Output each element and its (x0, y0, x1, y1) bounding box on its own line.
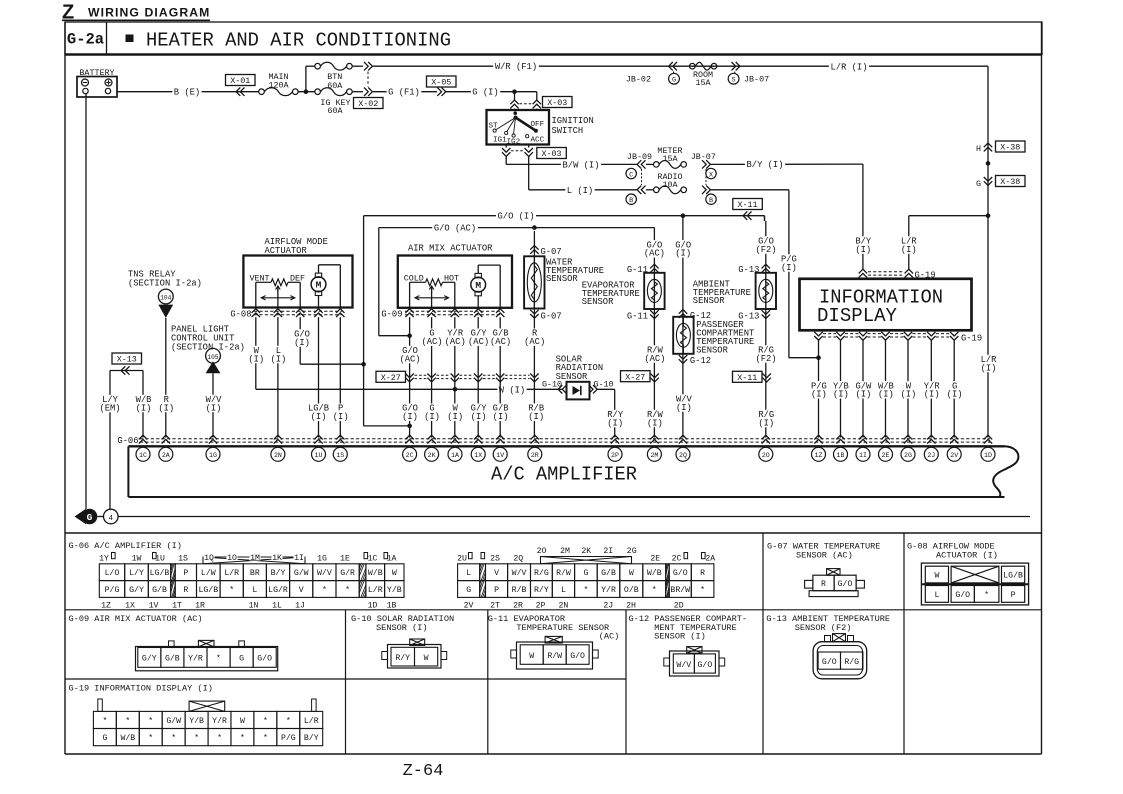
svg-text:(I): (I) (402, 412, 418, 422)
svg-text:1Y: 1Y (99, 554, 109, 563)
svg-text:1E: 1E (340, 554, 350, 563)
connector X-38 H (984, 143, 992, 147)
svg-text:(AC): (AC) (445, 337, 466, 347)
svg-text:B: B (629, 197, 633, 205)
svg-text:ACTUATOR: ACTUATOR (265, 246, 308, 256)
svg-text:IG1: IG1 (493, 137, 507, 145)
fuse ROOM 15A (690, 63, 696, 69)
connector JB-09 (637, 160, 641, 168)
svg-text:AIR MIX ACTUATOR: AIR MIX ACTUATOR (408, 243, 493, 253)
connector X-02 (352, 65, 363, 67)
svg-text:(I): (I) (471, 412, 487, 422)
svg-text:R/G: R/G (534, 568, 549, 578)
svg-text:(I): (I) (447, 412, 463, 422)
svg-text:JB-07: JB-07 (691, 152, 716, 162)
svg-text:2V: 2V (464, 602, 474, 611)
svg-text:(I): (I) (811, 390, 827, 400)
svg-text:2O: 2O (762, 452, 770, 459)
svg-text:G/W: G/W (166, 716, 181, 726)
svg-text:R: R (183, 586, 188, 595)
svg-text:X-11: X-11 (737, 200, 757, 210)
air mix motor M (475, 273, 481, 277)
svg-text:1D: 1D (984, 452, 992, 459)
svg-text:G-11: G-11 (627, 312, 648, 322)
svg-text:2Q: 2Q (679, 452, 687, 459)
svg-text:(I): (I) (833, 390, 849, 400)
wire L(I) from airflow (277, 317, 279, 437)
svg-text:2P: 2P (611, 452, 619, 459)
svg-text:L/R: L/R (224, 568, 239, 578)
node water temp tap (532, 225, 537, 230)
wire G/O to 2C (409, 317, 411, 437)
node G(I) junction (512, 89, 517, 94)
svg-text:*: * (240, 733, 245, 743)
svg-text:TEMPERATURE SENSOR: TEMPERATURE SENSOR (516, 623, 609, 633)
svg-text:SENSOR (F2): SENSOR (F2) (795, 623, 852, 633)
svg-text:B (E): B (E) (174, 88, 200, 98)
svg-text:SENSOR (I): SENSOR (I) (376, 623, 428, 633)
svg-text:1Z: 1Z (815, 452, 823, 459)
svg-text:1D: 1D (368, 602, 378, 611)
svg-text:R: R (700, 569, 705, 578)
svg-text:W/B: W/B (647, 568, 662, 578)
node P/G join (816, 355, 821, 360)
svg-text:(I): (I) (855, 390, 871, 400)
svg-text:(I): (I) (900, 390, 916, 400)
svg-text:B/Y: B/Y (304, 733, 319, 743)
header band (65, 22, 1042, 55)
svg-text:(I): (I) (248, 354, 264, 364)
air mix actuator box (398, 256, 512, 308)
ignition switch U1 (487, 110, 550, 145)
svg-text:G-2a: G-2a (67, 31, 104, 49)
svg-text:G/O: G/O (673, 568, 688, 578)
svg-text:R: R (821, 580, 826, 589)
connector JB-07 radio (702, 186, 706, 194)
svg-text:L: L (561, 586, 566, 595)
wires information display to amplifier (818, 340, 820, 437)
svg-text:SENSOR: SENSOR (582, 297, 614, 307)
svg-text:V: V (299, 586, 304, 595)
svg-text:2K: 2K (428, 452, 436, 459)
svg-text:G: G (87, 512, 93, 523)
svg-text:*: * (263, 733, 268, 743)
svg-text:G-12: G-12 (690, 356, 711, 366)
svg-text:R/Y: R/Y (395, 653, 410, 663)
svg-text:1M: 1M (250, 554, 260, 563)
wire G/O(AC) left drop (378, 228, 380, 336)
svg-text:Y/R: Y/R (212, 716, 227, 726)
svg-text:B/W (I): B/W (I) (563, 160, 600, 170)
svg-text:G/O: G/O (838, 579, 853, 589)
svg-text:2S: 2S (490, 554, 500, 563)
svg-text:120A: 120A (268, 81, 289, 91)
svg-text:X-02: X-02 (358, 99, 378, 109)
ignition switch contacts (513, 111, 517, 115)
ground node 4 (109, 508, 111, 510)
svg-text:G-09: G-09 (381, 309, 402, 319)
svg-text:C: C (629, 171, 633, 179)
node L/R branch (986, 213, 991, 218)
svg-text:(I): (I) (901, 245, 917, 255)
svg-text:W (I): W (I) (499, 385, 525, 395)
connector table frame (65, 532, 1042, 534)
svg-text:*: * (102, 716, 107, 726)
svg-text:R/Y: R/Y (534, 585, 549, 595)
svg-text:SENSOR (I): SENSOR (I) (654, 631, 706, 641)
connector JB-09 radio (637, 186, 641, 194)
connector JB-02 (669, 62, 673, 70)
svg-text:2G: 2G (627, 547, 637, 556)
connector X-11 upper (743, 212, 747, 220)
svg-text:X-03: X-03 (547, 98, 567, 108)
svg-text:*: * (125, 716, 130, 726)
svg-text:*: * (194, 733, 199, 743)
svg-text:G/W: G/W (294, 568, 309, 578)
svg-text:(I): (I) (675, 249, 691, 259)
svg-text:2N: 2N (558, 602, 568, 611)
svg-text:(I): (I) (206, 403, 222, 413)
svg-text:*: * (229, 585, 234, 595)
svg-text:(I): (I) (924, 390, 940, 400)
A/C amplifier box (128, 445, 1004, 447)
svg-text:Y/R: Y/R (601, 585, 616, 595)
svg-text:BR: BR (250, 569, 260, 578)
svg-text:G/Y: G/Y (142, 654, 157, 664)
svg-text:L: L (934, 591, 939, 600)
svg-text:G-10: G-10 (593, 379, 613, 389)
svg-text:X-01: X-01 (230, 76, 250, 86)
wire to P/G (711, 189, 789, 191)
svg-text:2J: 2J (603, 602, 613, 611)
svg-text:W: W (424, 654, 429, 663)
node W join 1A (453, 387, 458, 392)
svg-text:V: V (494, 569, 499, 578)
svg-text:1S: 1S (336, 452, 344, 459)
svg-text:2Q: 2Q (513, 554, 523, 563)
svg-text:SENSOR: SENSOR (546, 274, 578, 284)
svg-text:4: 4 (109, 515, 114, 523)
svg-text:(AC): (AC) (490, 337, 511, 347)
svg-text:W: W (240, 717, 245, 726)
svg-text:(SECTION I-2a): (SECTION I-2a) (128, 279, 202, 289)
svg-text:R/W: R/W (547, 651, 562, 661)
svg-text:(AC): (AC) (399, 354, 420, 364)
svg-text:G-08: G-08 (230, 309, 251, 319)
svg-text:X-11: X-11 (737, 373, 757, 383)
svg-text:DISPLAY: DISPLAY (817, 305, 898, 327)
svg-text:104: 104 (160, 295, 171, 302)
fuse MAIN 120A (267, 72, 290, 89)
svg-text:ACC: ACC (531, 137, 545, 145)
battery (77, 77, 117, 98)
svg-text:W: W (392, 569, 397, 578)
connector X-27 left (376, 371, 406, 382)
svg-text:2A: 2A (705, 554, 715, 563)
svg-text:X-27: X-27 (625, 372, 645, 382)
svg-text:2V: 2V (950, 452, 958, 459)
fuse RADIO 10A (646, 189, 654, 191)
wire G/O(I) bus (364, 215, 765, 217)
wire W/V(I) to 1G (212, 373, 214, 437)
G-06 pin circles (136, 447, 150, 461)
svg-text:G/O: G/O (570, 651, 585, 661)
header bullet (126, 35, 134, 43)
svg-text:2N: 2N (274, 452, 282, 459)
svg-text:P: P (494, 586, 499, 595)
svg-text:(I): (I) (647, 418, 663, 428)
svg-text:*: * (583, 585, 588, 595)
airflow motor M (315, 273, 321, 277)
svg-text:2C: 2C (406, 452, 414, 459)
svg-text:1G: 1G (209, 452, 217, 459)
svg-text:G: G (239, 655, 244, 664)
svg-text:*: * (216, 654, 221, 664)
svg-text:2E: 2E (882, 452, 890, 459)
svg-text:X-13: X-13 (117, 355, 137, 365)
svg-text:L/Y: L/Y (129, 568, 144, 578)
wire W/R(F1) (373, 65, 988, 67)
svg-text:G: G (102, 734, 107, 743)
svg-text:2E: 2E (650, 554, 660, 563)
svg-text:1J: 1J (295, 602, 305, 611)
wire W(I) from airflow (255, 317, 257, 389)
svg-text:G/R: G/R (340, 568, 355, 578)
page border (64, 22, 66, 754)
svg-text:ACTUATOR (I): ACTUATOR (I) (936, 550, 998, 560)
air mix resistor (410, 281, 426, 283)
fuse IG KEY 60A (315, 89, 321, 95)
svg-text:R/W: R/W (556, 568, 571, 578)
svg-text:G: G (466, 586, 471, 595)
svg-text:L/O: L/O (105, 568, 120, 578)
svg-text:W/V: W/V (317, 568, 332, 578)
svg-text:G/Y: G/Y (129, 585, 144, 595)
svg-text:*: * (345, 585, 350, 595)
svg-text:X: X (709, 171, 713, 179)
svg-text:2U: 2U (457, 554, 467, 563)
svg-text:(I): (I) (311, 412, 327, 422)
svg-text:2T: 2T (490, 602, 500, 611)
svg-text:W: W (629, 569, 634, 578)
svg-text:2D: 2D (674, 602, 684, 611)
svg-text:1N: 1N (249, 602, 259, 611)
svg-text:S: S (732, 77, 736, 85)
svg-text:(I): (I) (136, 403, 152, 413)
svg-text:G/B: G/B (152, 585, 167, 595)
svg-text:LG/B: LG/B (150, 568, 170, 578)
svg-text:*: * (984, 590, 989, 600)
svg-text:O/B: O/B (624, 585, 639, 595)
svg-text:G/O: G/O (698, 660, 713, 670)
svg-text:LG/R: LG/R (268, 585, 288, 595)
svg-text:2M: 2M (650, 452, 658, 459)
ground symbol G (75, 509, 87, 524)
svg-text:H: H (976, 144, 981, 154)
svg-text:1I: 1I (294, 554, 304, 563)
svg-text:1T: 1T (172, 602, 182, 611)
svg-text:Y/B: Y/B (387, 585, 402, 595)
svg-text:2O: 2O (537, 547, 547, 556)
svg-text:G: G (583, 569, 588, 578)
svg-text:105: 105 (207, 354, 218, 361)
svg-text:JB-07: JB-07 (744, 75, 769, 85)
svg-text:JB-09: JB-09 (627, 152, 652, 162)
svg-text:X-38: X-38 (1000, 177, 1020, 187)
svg-text:2P: 2P (536, 602, 546, 611)
svg-text:(I): (I) (878, 390, 894, 400)
wire G/Y to 1X (477, 317, 479, 437)
connector G-19 row upper (859, 269, 867, 273)
svg-text:G/O (I): G/O (I) (498, 212, 535, 222)
svg-text:1O: 1O (227, 554, 237, 563)
svg-text:1L: 1L (272, 602, 282, 611)
svg-text:*: * (148, 716, 153, 726)
svg-text:2C: 2C (672, 554, 682, 563)
svg-text:2R: 2R (513, 602, 523, 611)
svg-text:1B: 1B (837, 452, 845, 459)
svg-text:B/Y: B/Y (271, 568, 286, 578)
wire G(F1) (373, 91, 437, 93)
svg-text:X-27: X-27 (381, 373, 401, 383)
svg-text:(I): (I) (855, 245, 871, 255)
svg-text:R/B: R/B (512, 585, 527, 595)
svg-text:B: B (709, 197, 713, 205)
svg-text:1V: 1V (496, 452, 504, 459)
svg-text:BATTERY: BATTERY (79, 68, 114, 78)
wire to BTN fuse (305, 66, 307, 92)
connector JB-07 (meter) (702, 160, 706, 168)
svg-text:HEATER AND AIR CONDITIONING: HEATER AND AIR CONDITIONING (146, 30, 451, 52)
svg-text:(AC): (AC) (599, 631, 620, 641)
G-06 right pin group bracket (541, 557, 632, 564)
svg-text:(F2): (F2) (755, 354, 776, 364)
wire G/B to 1V (499, 317, 501, 437)
svg-text:1W: 1W (132, 554, 142, 563)
svg-text:*: * (652, 585, 657, 595)
svg-text:60A: 60A (327, 81, 343, 91)
connector X-13 (112, 353, 142, 364)
wire L(I) (528, 157, 530, 190)
svg-text:10A: 10A (662, 180, 678, 190)
wire P to 1S (339, 317, 341, 437)
svg-text:(AC): (AC) (644, 354, 665, 364)
svg-text:W/V: W/V (512, 568, 527, 578)
svg-text:P: P (1011, 591, 1016, 600)
wire B/Y(I) (711, 163, 863, 165)
svg-text:2K: 2K (581, 547, 591, 556)
svg-text:60A: 60A (327, 106, 343, 116)
connector X-05 (427, 76, 457, 87)
svg-text:W/B: W/B (120, 733, 135, 743)
svg-text:*: * (286, 716, 291, 726)
svg-text:L/W: L/W (201, 568, 216, 578)
node X-38 junction (986, 161, 991, 166)
svg-text:X-03: X-03 (541, 149, 561, 159)
svg-text:G/B: G/B (165, 654, 180, 664)
svg-text:1Q: 1Q (204, 554, 214, 563)
svg-text:*: * (322, 585, 327, 595)
svg-text:G: G (976, 179, 981, 189)
wire Y/R to 1A (454, 317, 456, 437)
svg-text:(I): (I) (676, 403, 692, 413)
svg-text:G-06 A/C AMPLIFIER (I): G-06 A/C AMPLIFIER (I) (69, 541, 182, 551)
wire B/W(I) (505, 157, 507, 165)
connector X-03 lower (505, 145, 507, 148)
wire G/O(I) left drop (363, 216, 365, 426)
svg-text:G (F1): G (F1) (388, 88, 420, 98)
svg-text:2I: 2I (603, 547, 613, 556)
svg-text:P/G: P/G (105, 585, 120, 595)
svg-text:15A: 15A (662, 154, 678, 164)
fuse METER 15A (646, 163, 654, 165)
svg-text:*: * (263, 716, 268, 726)
svg-text:P: P (183, 569, 188, 578)
svg-text:IG2: IG2 (507, 139, 521, 147)
svg-text:1Z: 1Z (101, 602, 111, 611)
svg-text:*: * (700, 585, 705, 595)
svg-text:W: W (934, 572, 939, 581)
airflow wiper (277, 286, 279, 308)
svg-text:G-09 AIR MIX ACTUATOR (AC): G-09 AIR MIX ACTUATOR (AC) (69, 614, 203, 624)
connector X-38 G (984, 177, 992, 181)
svg-text:M: M (475, 280, 481, 291)
connector JB-07 (room) (732, 62, 736, 70)
svg-text:(I): (I) (270, 354, 286, 364)
svg-text:X-05: X-05 (431, 78, 451, 88)
svg-text:L/R: L/R (304, 716, 319, 726)
svg-text:A/C AMPLIFIER: A/C AMPLIFIER (491, 464, 637, 486)
svg-text:*: * (171, 733, 176, 743)
svg-text:IGNITION: IGNITION (552, 116, 594, 126)
wire W/B(I) to 1C (142, 371, 144, 438)
svg-text:15A: 15A (695, 78, 711, 88)
svg-text:SWITCH: SWITCH (552, 126, 584, 136)
airflow resistor (256, 281, 271, 283)
information display box (800, 279, 972, 331)
svg-text:L/R (I): L/R (I) (831, 63, 868, 73)
wire L/Y(EM) (109, 371, 111, 510)
svg-text:W/V: W/V (676, 660, 691, 670)
svg-text:(I): (I) (781, 263, 797, 273)
svg-text:(AC): (AC) (421, 337, 442, 347)
connector X-27 right (621, 371, 651, 382)
svg-text:G/O: G/O (257, 654, 272, 664)
svg-text:(AC): (AC) (524, 337, 545, 347)
svg-text:(EM): (EM) (99, 403, 120, 413)
svg-text:(I): (I) (947, 390, 963, 400)
connector X-03 upper (510, 100, 518, 104)
svg-text:BR/W: BR/W (670, 585, 690, 595)
svg-text:2A: 2A (162, 452, 170, 459)
wire R/Y to 2P (614, 389, 616, 437)
svg-text:1I: 1I (859, 452, 867, 459)
svg-text:(I): (I) (424, 412, 440, 422)
fuse BTN 60A (315, 63, 321, 69)
svg-text:1C: 1C (139, 452, 147, 459)
svg-text:(I): (I) (333, 412, 349, 422)
svg-text:WIRING DIAGRAM: WIRING DIAGRAM (88, 6, 210, 20)
svg-text:JB-02: JB-02 (626, 75, 651, 85)
svg-text:G/O: G/O (822, 657, 837, 667)
svg-text:1G: 1G (317, 554, 327, 563)
svg-text:1R: 1R (195, 602, 205, 611)
svg-text:L: L (252, 586, 257, 595)
svg-text:M: M (316, 280, 322, 291)
G-06 left pin group bracket (203, 557, 305, 564)
svg-text:1X: 1X (125, 602, 135, 611)
wire G to 2K (431, 317, 433, 437)
